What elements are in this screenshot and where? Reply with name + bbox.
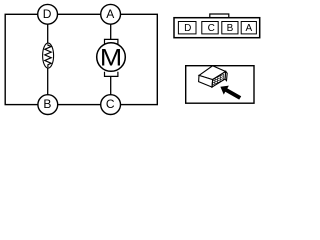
icon box frame [186, 66, 254, 104]
pin box B [222, 22, 238, 34]
terminal circle A [101, 4, 121, 24]
wire: circuit frame rectangle [5, 14, 157, 104]
terminal circle D [38, 4, 58, 24]
svg-text:B: B [43, 97, 51, 111]
motor M1 circle [97, 43, 126, 72]
pin box A [241, 22, 256, 34]
terminal circle B [38, 95, 58, 115]
svg-text:D: D [184, 23, 191, 34]
wire: motor to C [110, 76, 112, 95]
circuit breaker (fuse) oval [43, 43, 54, 68]
arrow [220, 86, 241, 100]
connector housing [174, 18, 260, 38]
pin box C [202, 22, 218, 34]
connector icon top face [199, 66, 226, 80]
pin box D [178, 22, 196, 34]
terminal circle C [101, 95, 121, 115]
connector icon right end cap [225, 72, 227, 81]
wire: A to motor [110, 24, 112, 40]
wire: fuse to B [47, 67, 49, 95]
connector icon front face [212, 72, 226, 88]
svg-text:M: M [100, 45, 122, 72]
svg-text:A: A [245, 23, 252, 34]
motor bottom brush terminal [105, 72, 118, 77]
svg-text:B: B [227, 23, 234, 34]
svg-text:A: A [106, 7, 114, 21]
connector icon left face [199, 75, 213, 87]
svg-text:C: C [106, 97, 115, 111]
connector icon pin grid [212, 75, 224, 86]
wire: D to fuse [47, 24, 49, 44]
svg-text:D: D [43, 7, 52, 21]
svg-text:C: C [208, 23, 215, 34]
motor top brush terminal [105, 39, 118, 44]
circuit breaker zigzag [45, 44, 51, 67]
connector tab [210, 14, 229, 18]
